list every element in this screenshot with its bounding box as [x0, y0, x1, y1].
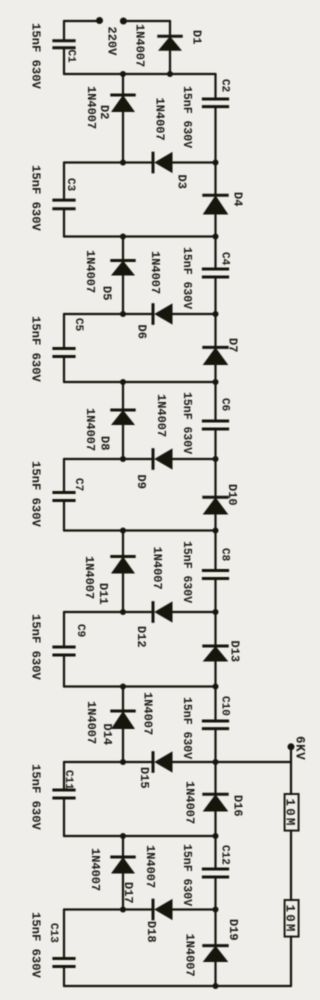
diode D7 1N4007	[202, 347, 228, 365]
junction D2 anode on rail	[120, 160, 126, 166]
wire rail 10 right segment	[173, 761, 216, 763]
diode D8 1N4007	[110, 410, 135, 425]
wire rail 3 horizontal	[64, 235, 216, 237]
wire resistor R2 to bottom rail	[290, 937, 292, 986]
svg-text:10M: 10M	[283, 799, 297, 828]
svg-text:1N4007: 1N4007	[183, 934, 197, 977]
svg-text:1N4007: 1N4007	[143, 845, 157, 888]
wire D14 anode lead	[122, 729, 124, 762]
wire right column to C8	[214, 531, 216, 571]
wire C11 top lead	[63, 762, 65, 790]
svg-text:1N4007: 1N4007	[83, 408, 97, 451]
wire C13 bottom lead	[63, 967, 65, 987]
wire D1 cathode lead	[169, 21, 171, 36]
junction D17 anode on rail	[120, 907, 126, 913]
svg-text:C7: C7	[72, 478, 84, 491]
resistor R2 10M	[285, 900, 299, 937]
wire rail 12 left segment	[64, 908, 152, 910]
resistor R1 10M	[285, 794, 299, 831]
capacitor C12	[202, 869, 229, 877]
svg-text:15nF 630V: 15nF 630V	[29, 23, 43, 90]
junction right rail bottom 3	[213, 684, 219, 690]
svg-text:1N4007: 1N4007	[141, 692, 155, 735]
junction right rail bottom 0	[213, 234, 219, 240]
capacitor C11	[52, 790, 75, 798]
svg-text:1N4007: 1N4007	[150, 547, 164, 590]
svg-text:D8: D8	[98, 436, 112, 450]
wire C7 bottom lead	[63, 501, 65, 531]
diode D15 1N4007	[153, 751, 173, 773]
wire rail 9 horizontal	[64, 685, 216, 687]
wire D16 anode lead	[214, 812, 216, 837]
diode D17 1N4007	[110, 857, 135, 874]
junction D8 cathode on rail	[120, 379, 126, 385]
wire D1 anode lead	[169, 51, 171, 74]
wire C9 top lead	[63, 612, 65, 647]
capacitor C10	[202, 721, 229, 729]
wire D4 anode lead	[214, 215, 216, 237]
svg-text:1N4007: 1N4007	[82, 556, 96, 599]
capacitor C2	[202, 99, 229, 107]
diode D4 1N4007	[202, 195, 228, 214]
junction D11 cathode on rail	[120, 528, 126, 534]
svg-text:15nF 630V: 15nF 630V	[29, 461, 43, 528]
svg-text:D16: D16	[231, 795, 245, 817]
wire right column to C12	[214, 836, 216, 869]
diode D5 1N4007	[110, 261, 135, 276]
wire output rail from right rail to output column	[216, 761, 292, 763]
wire rail 10 left segment	[64, 761, 152, 763]
svg-text:1N4007: 1N4007	[183, 781, 197, 824]
node 220V input left terminal	[96, 17, 103, 24]
svg-text:C4: C4	[219, 252, 231, 266]
svg-text:D10: D10	[225, 484, 239, 506]
svg-text:15nF 630V: 15nF 630V	[29, 764, 43, 831]
svg-text:6KV: 6KV	[293, 736, 307, 760]
junction D17 cathode on rail	[120, 833, 126, 839]
wire D7 anode lead	[214, 365, 216, 382]
diode D13 1N4007	[202, 646, 228, 662]
svg-text:15nF 630V: 15nF 630V	[29, 165, 43, 232]
wire right column to C2	[214, 74, 216, 99]
wire D13 anode lead	[214, 662, 216, 687]
junction D5 anode on rail	[120, 311, 126, 317]
wire rail 6 left segment	[64, 458, 152, 460]
node 6KV output terminal	[288, 743, 295, 750]
wire top rail right (220V right terminal to D1)	[123, 20, 170, 22]
capacitor C3	[52, 200, 75, 209]
svg-text:D18: D18	[144, 921, 158, 943]
wire D4 cathode lead	[214, 163, 216, 196]
wire C5 top lead	[63, 314, 65, 349]
diode D10 1N4007	[202, 497, 228, 514]
capacitor C6	[202, 421, 229, 429]
wire D17 anode lead	[122, 874, 124, 910]
junction right rail mid 3	[213, 609, 219, 615]
wire right column to C6	[214, 382, 216, 421]
wire rail 4 left segment	[64, 313, 152, 315]
diode D14 1N4007	[110, 711, 135, 729]
wire D10 cathode lead	[214, 459, 216, 497]
wire D8 anode lead	[122, 425, 124, 459]
wire C11 bottom lead	[63, 798, 65, 836]
svg-text:D9: D9	[134, 475, 148, 489]
junction D8 anode on rail	[120, 456, 126, 462]
wire rail 6 right segment	[173, 458, 216, 460]
wire D5 cathode lead	[122, 237, 124, 261]
junction right rail bottom 5	[213, 983, 219, 989]
junction right rail bottom 1	[213, 379, 219, 385]
node 220V input right terminal	[120, 18, 127, 25]
diode D1 1N4007	[157, 36, 182, 51]
svg-text:C11: C11	[62, 770, 74, 790]
svg-text:15nF 630V: 15nF 630V	[180, 697, 193, 759]
svg-text:D1: D1	[190, 30, 204, 44]
wire D19 cathode lead	[214, 910, 216, 946]
wire 6KV terminal lead	[290, 748, 292, 762]
svg-text:1N4007: 1N4007	[133, 24, 147, 67]
svg-text:1N4007: 1N4007	[154, 394, 168, 437]
svg-text:D5: D5	[100, 286, 114, 300]
wire right column to C10	[214, 687, 216, 722]
wire D11 anode lead	[122, 574, 124, 613]
capacitor C13	[52, 959, 75, 967]
wire D8 cathode lead	[122, 382, 124, 410]
diode D12 1N4007	[153, 601, 173, 623]
svg-text:1N4007: 1N4007	[88, 848, 102, 891]
junction D2 cathode on rail	[120, 71, 126, 77]
wire C1 top lead	[63, 21, 65, 41]
wire C5 bottom lead	[63, 357, 65, 383]
junction right rail mid 4	[213, 759, 219, 765]
junction right rail bottom 4	[213, 833, 219, 839]
svg-text:15nF 630V: 15nF 630V	[29, 316, 43, 383]
svg-text:D7: D7	[226, 338, 240, 352]
svg-text:15nF 630V: 15nF 630V	[180, 392, 193, 454]
diode D3 1N4007	[153, 152, 173, 174]
svg-text:1N4007: 1N4007	[83, 250, 97, 293]
wire between resistors	[290, 831, 292, 900]
svg-text:D12: D12	[134, 626, 148, 648]
wire rail 1 horizontal	[64, 73, 216, 75]
svg-text:D2: D2	[97, 105, 111, 119]
diode D2 1N4007	[110, 95, 135, 112]
diode D18 1N4007	[153, 899, 173, 921]
svg-text:220V: 220V	[105, 27, 119, 57]
wire rail 8 right segment	[173, 611, 216, 613]
capacitor C1	[52, 41, 75, 48]
capacitor C5	[52, 349, 75, 357]
svg-text:C10: C10	[219, 696, 231, 716]
svg-text:D11: D11	[96, 583, 110, 605]
wire D5 anode lead	[122, 276, 124, 315]
wire C9 bottom lead	[63, 655, 65, 687]
wire rail 2 right segment	[173, 161, 216, 163]
wire D13 cathode lead	[214, 612, 216, 646]
wire D7 cathode lead	[214, 314, 216, 347]
capacitor C7	[52, 493, 75, 501]
svg-text:C6: C6	[219, 398, 231, 411]
capacitor C8	[202, 571, 229, 579]
svg-text:C1: C1	[65, 50, 77, 64]
wire D19 anode lead	[214, 962, 216, 986]
junction right rail mid 2	[213, 456, 219, 462]
svg-text:D4: D4	[231, 192, 245, 206]
svg-text:1N4007: 1N4007	[84, 86, 98, 129]
svg-text:C9: C9	[74, 624, 86, 637]
wire D14 cathode lead	[122, 687, 124, 712]
diode D19 1N4007	[202, 946, 228, 962]
junction D11 anode on rail	[120, 609, 126, 615]
svg-text:D6: D6	[135, 325, 149, 339]
wire C8 bottom lead	[214, 579, 216, 613]
wire rail 5 horizontal	[64, 381, 216, 383]
svg-text:C12: C12	[219, 845, 231, 865]
svg-text:D13: D13	[228, 641, 242, 663]
svg-text:15nF 630V: 15nF 630V	[180, 86, 193, 148]
svg-text:15nF 630V: 15nF 630V	[180, 541, 193, 603]
wire C3 bottom lead	[63, 209, 65, 237]
wire top rail left (C1 top to 220V left terminal)	[64, 20, 100, 22]
wire C2 bottom lead	[214, 107, 216, 163]
junction D5 cathode on rail	[120, 234, 126, 240]
svg-text:C13: C13	[47, 923, 59, 943]
wire bottom rail	[64, 985, 291, 987]
svg-text:D19: D19	[226, 919, 240, 941]
wire D16 cathode lead	[214, 762, 216, 794]
svg-text:C5: C5	[72, 318, 84, 332]
wire rail 7 horizontal	[64, 529, 216, 531]
capacitor C4	[202, 269, 229, 277]
svg-text:10M: 10M	[283, 905, 297, 934]
diode D6 1N4007	[153, 303, 173, 325]
wire D2 anode lead	[122, 112, 124, 163]
wire 6KV junction to resistor R1	[290, 762, 292, 794]
svg-text:D15: D15	[137, 767, 151, 789]
junction right rail mid 5	[213, 907, 219, 913]
wire rail 12 right segment	[173, 908, 216, 910]
junction D14 cathode on rail	[120, 684, 126, 690]
wire C6 bottom lead	[214, 429, 216, 459]
capacitor C9	[52, 647, 75, 655]
wire D2 cathode lead	[122, 74, 124, 95]
junction D1 anode on rail 1	[167, 71, 173, 77]
svg-text:15nF 630V: 15nF 630V	[180, 247, 193, 309]
wire C1 bottom lead	[63, 48, 65, 74]
junction right rail bottom 2	[213, 528, 219, 534]
svg-text:1N4007: 1N4007	[153, 98, 167, 141]
wire D17 cathode lead	[122, 836, 124, 857]
svg-text:1N4007: 1N4007	[84, 701, 98, 744]
wire rail 4 right segment	[173, 313, 216, 315]
diode D11 1N4007	[110, 557, 135, 574]
svg-text:C8: C8	[219, 548, 231, 562]
diode D16 1N4007	[202, 794, 228, 811]
svg-text:C2: C2	[219, 79, 231, 92]
wire C12 bottom lead	[214, 877, 216, 910]
junction D14 anode on rail	[120, 759, 126, 765]
svg-text:C3: C3	[64, 178, 76, 192]
svg-text:D14: D14	[100, 724, 114, 746]
junction right rail mid 1	[213, 311, 219, 317]
wire right column to C4	[214, 237, 216, 270]
svg-text:15nF 630V: 15nF 630V	[180, 844, 193, 906]
wire rail 8 left segment	[64, 611, 152, 613]
svg-text:1N4007: 1N4007	[148, 251, 162, 294]
wire C7 top lead	[63, 459, 65, 493]
wire rail 11 horizontal	[64, 835, 216, 837]
wire rail 2 left segment	[64, 161, 152, 163]
wire C4 bottom lead	[214, 277, 216, 314]
wire C3 top lead	[63, 163, 65, 201]
wire C13 top lead	[63, 910, 65, 959]
wire D10 anode lead	[214, 515, 216, 531]
svg-text:15nF 630V: 15nF 630V	[29, 912, 43, 979]
junction right rail mid 0	[213, 160, 219, 166]
diode D9 1N4007	[153, 448, 173, 470]
svg-text:D3: D3	[175, 175, 189, 189]
svg-text:15nF 630V: 15nF 630V	[29, 614, 43, 681]
wire D11 cathode lead	[122, 531, 124, 557]
wire C10 bottom lead	[214, 729, 216, 762]
